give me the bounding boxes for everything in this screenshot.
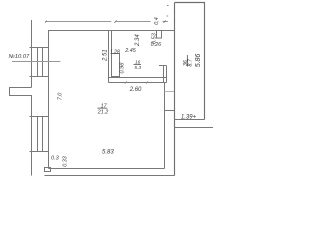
svg-text:0.98: 0.98 (120, 62, 126, 74)
svg-text:5.3: 5.3 (134, 65, 141, 71)
svg-text:5.86: 5.86 (195, 54, 202, 68)
svg-text:0.33: 0.33 (63, 156, 69, 167)
svg-text:0.53: 0.53 (151, 32, 157, 44)
svg-text:8.7: 8.7 (188, 58, 194, 66)
svg-text:2.51: 2.51 (103, 49, 109, 62)
svg-text:5.83: 5.83 (102, 150, 114, 156)
svg-text:2.60: 2.60 (129, 87, 142, 93)
svg-text:0.3: 0.3 (51, 155, 60, 161)
svg-text:1.39+: 1.39+ (181, 115, 197, 121)
svg-text:1.28: 1.28 (110, 49, 120, 55)
svg-text:21.2: 21.2 (97, 109, 109, 115)
svg-text:7.0: 7.0 (57, 93, 63, 101)
svg-text:0,4: 0,4 (154, 17, 160, 25)
svg-text:№10.07: №10.07 (9, 54, 31, 60)
svg-text:2.45: 2.45 (124, 48, 136, 54)
svg-text:2.34: 2.34 (135, 34, 141, 47)
